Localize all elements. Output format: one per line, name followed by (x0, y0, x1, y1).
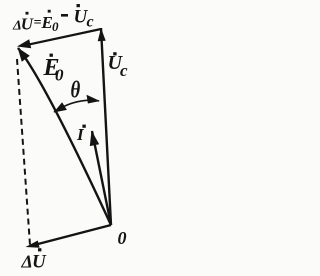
svg-text:0: 0 (55, 66, 64, 85)
svg-text:=: = (34, 16, 42, 31)
label I (current phasor name) (76, 125, 86, 144)
dashed construction line (parallel to Uc, from E0 tip down) (17, 59, 30, 245)
svg-text:Δ: Δ (21, 252, 33, 272)
vector I (current phasor from origin O) (92, 131, 111, 225)
svg-text:0: 0 (52, 19, 59, 34)
theta angle arc (double-headed arrow between E0 and Uc) (54, 100, 99, 112)
arrowhead of dU bottom (26, 241, 40, 248)
label E0 (phasor name) (43, 54, 65, 85)
svg-text:E: E (41, 13, 53, 32)
equation label: dU = E0 - Uc (12, 4, 94, 34)
vector dU bottom (from origin O down-left) (38, 225, 111, 244)
arrowhead of dU top (17, 39, 31, 48)
svg-text:θ: θ (71, 76, 81, 103)
svg-text:U: U (32, 252, 47, 273)
svg-text:0: 0 (118, 228, 127, 248)
label Uc (phasor name) (108, 52, 129, 80)
arc left arrowhead (54, 102, 67, 112)
difference vector dU top (from Uc tip to E0 tip) (28, 29, 101, 45)
arrowhead of vector Uc (98, 28, 106, 41)
arrowhead of vector E0 (18, 48, 30, 62)
label dU bottom (21, 248, 48, 272)
svg-text:c: c (87, 14, 94, 31)
vector E0 (line from origin O to upper-left tip) (18, 48, 111, 225)
svg-text:U: U (21, 15, 34, 34)
arrowhead of vector I (90, 131, 99, 147)
svg-text:c: c (120, 61, 128, 80)
vector Uc (line from origin O to top tip) (101, 28, 111, 225)
arc right arrowhead (87, 95, 101, 104)
